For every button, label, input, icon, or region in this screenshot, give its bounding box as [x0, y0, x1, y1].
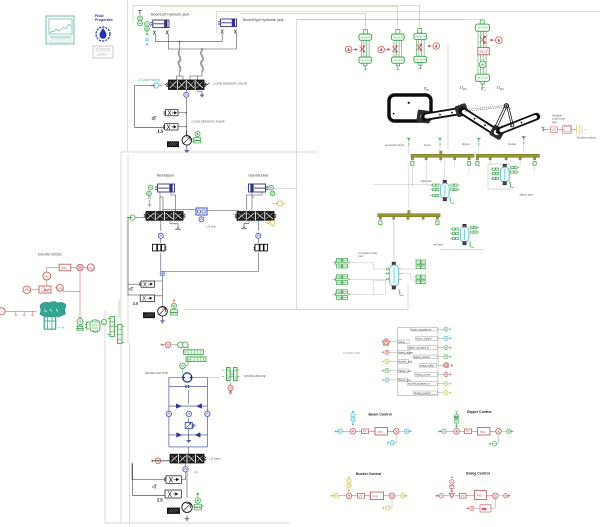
svg-text:ΠRsd: ΠRsd [459, 85, 468, 91]
swing pump control block [168, 508, 180, 513]
green wire to actuator A1 [240, 13, 365, 30]
swing motor loop [169, 378, 208, 447]
svg-text:PID: PID [477, 494, 483, 498]
SWING BRAKE [196, 368, 240, 381]
spring damper unit 1 [333, 258, 351, 268]
svg-text:boom: boom [424, 143, 432, 147]
svg-text:bucket_control: bucket_control [414, 392, 431, 395]
gain block [362, 429, 369, 434]
svg-text:Swing Control: Swing Control [466, 471, 490, 475]
olive bar 2 (bucket plane) [476, 154, 540, 157]
green wire to actuator A2 [160, 6, 398, 29]
valve outlet lines [186, 90, 202, 136]
svg-text:PID: PID [61, 266, 67, 270]
input port cyan [335, 429, 343, 433]
check valves row2 [177, 433, 201, 437]
speed sensor green n [101, 319, 106, 324]
region border mid column [216, 11, 600, 309]
bucket position yellow port [577, 125, 588, 135]
boom pump control block [168, 142, 179, 147]
bar3 pin up [408, 211, 410, 214]
line to pump 2 [155, 276, 163, 311]
green blocks right of body [416, 260, 425, 284]
svg-text:Πθb: Πθb [423, 86, 430, 92]
jack actuator A3 (dipper) [414, 29, 440, 69]
lines hoses to valve [177, 71, 203, 80]
LS valve signal input node [151, 83, 163, 88]
left jack green side ports [450, 227, 479, 240]
tag boxes inside [408, 327, 438, 395]
jack actuator A2 (boom right) [378, 30, 404, 70]
boomleft force sensor [138, 21, 143, 26]
setpoint from top cyan [351, 410, 355, 425]
pressure gauge below valve [184, 92, 189, 97]
bell crank links [463, 104, 515, 130]
central body block [386, 262, 403, 295]
gauges row [166, 411, 210, 416]
region border jacks [373, 164, 510, 250]
olive bar 3 (body plane) [378, 214, 441, 217]
svg-text:left jack: left jack [434, 242, 444, 246]
svg-text:LOAD SENSING VALVE: LOAD SENSING VALVE [214, 82, 249, 86]
black LS line swing [132, 461, 170, 496]
swing brake mini link [409, 353, 413, 364]
boom-dipper joint [454, 103, 469, 118]
svg-text:ΠRsd: ΠRsd [496, 85, 505, 91]
engine constant source [87, 264, 94, 271]
left side tags [398, 340, 413, 382]
left jack spring [469, 242, 474, 248]
dipper compensator valve A [139, 281, 154, 287]
svg-text:LS: LS [156, 499, 163, 504]
LOAD SENSING VALVE (boom main valve) [165, 80, 209, 90]
chart/plot icon top-left [46, 16, 74, 44]
load function block [563, 126, 572, 134]
swing speed sensor [180, 359, 190, 368]
svg-text:Properties: Properties [95, 18, 113, 22]
bucket sensors (right of cylinder) [269, 185, 275, 196]
svg-text:1 2 3 4 5: 1 2 3 4 5 [97, 53, 108, 57]
pump 2 green control [171, 303, 178, 315]
swing feedback chain below [466, 499, 495, 512]
excavator body (black rounded frame) [389, 95, 431, 121]
swing LS valve [170, 454, 206, 463]
swing clutch (double green circles) [171, 342, 188, 348]
closed valve X [185, 385, 189, 388]
pump 2 (dipper/bucket supply) [158, 307, 168, 317]
gearbox green [85, 320, 100, 332]
svg-text:swing_control: swing_control [415, 374, 431, 377]
dipper jack body [501, 165, 510, 185]
bucket valve yellow LS output [266, 220, 275, 225]
bar1 pins below [411, 157, 470, 160]
swing gear coupling bars [184, 345, 207, 362]
bucket compensator block [254, 244, 268, 251]
boom pos port [382, 378, 399, 382]
swing pump tank [185, 516, 190, 521]
black LS feedback line boom [135, 86, 165, 128]
bar2 green connector squares [476, 161, 536, 165]
bucket gauge [256, 233, 261, 238]
svg-text:dipper: dipper [462, 142, 470, 146]
bucket link [500, 117, 537, 131]
boomleft sensor 4 [145, 26, 150, 31]
svg-text:excavator body: excavator body [385, 143, 405, 147]
swing control loop [436, 476, 511, 512]
dipper compensator valve B [140, 295, 154, 301]
svg-text:PID: PID [373, 494, 379, 498]
summer red [350, 429, 356, 435]
right jack body [441, 181, 450, 201]
boom compensator valve 2 [163, 124, 178, 130]
svg-text:Boom Control: Boom Control [369, 412, 392, 416]
BoomLeft leak marks [153, 31, 168, 35]
svg-text:Dipper Control: Dipper Control [467, 410, 492, 414]
engine red wires [6, 268, 88, 320]
swing compensator 2 [165, 490, 181, 498]
spring damper unit 3 [333, 290, 351, 300]
svg-text:Bucket position: Bucket position [577, 136, 596, 140]
tank symbol right [200, 92, 204, 98]
bucket cylinder lines [247, 192, 263, 211]
bar3 pins below [379, 217, 438, 220]
swing torque input port red [160, 342, 171, 348]
shaft wires green [84, 300, 125, 335]
boom pump [182, 131, 192, 146]
engine speed sensor circle [43, 272, 51, 280]
svg-text:LOAD SENSING PUMP: LOAD SENSING PUMP [192, 119, 226, 123]
boom compensator valve 1 [164, 110, 187, 128]
wires body part [351, 217, 417, 294]
swing hydraulic motor [183, 373, 192, 382]
boom pump green control [192, 131, 201, 143]
feedback input below [386, 434, 396, 445]
torque sensor green [77, 319, 84, 331]
dipper jack green side ports [490, 167, 519, 180]
right jack green side ports [431, 184, 460, 197]
C spring symbol 2 [129, 288, 134, 292]
engine input circle left [23, 286, 31, 294]
dipper valve lower lines [161, 220, 181, 243]
cyan position output [145, 39, 149, 41]
BoomRight cylinder [218, 19, 237, 27]
engine circle mid [56, 284, 63, 291]
bar3 green connector squares [379, 221, 439, 225]
dipper-bucket joint [489, 124, 506, 140]
pi labels under actuators [423, 85, 505, 92]
green wire to swing actuator A4 [297, 20, 483, 25]
bucket valve lower lines [241, 220, 258, 243]
BoomLeft cylinder [150, 20, 169, 28]
svg-text:LS: LS [194, 470, 197, 474]
PID box [375, 428, 388, 436]
pump 2 control block [144, 313, 155, 318]
dipper control loop [438, 412, 514, 446]
engine input port at canvas edge [0, 308, 5, 315]
multiplier [394, 429, 400, 435]
engine block (teal) [40, 302, 66, 330]
svg-text:boom_pos: boom_pos [399, 379, 411, 382]
green arrow down [146, 32, 149, 36]
svg-text:dipper_pos: dipper_pos [399, 370, 412, 373]
swing angle port [382, 350, 399, 354]
boomleft sensor 3 [145, 22, 150, 27]
zero speed source top tick [138, 11, 141, 15]
dipper pos port [382, 369, 399, 373]
dipper compensator block [153, 244, 167, 251]
svg-text:part: part [359, 254, 364, 258]
green wire to actuator A3 [133, 6, 420, 30]
bucket cylinder [249, 184, 269, 192]
bucket pos port [382, 359, 399, 363]
dipper cylinder [155, 184, 175, 192]
dipper valve [144, 212, 185, 221]
fluid properties droplet icon [96, 27, 110, 41]
svg-text:LS valve: LS valve [209, 457, 221, 461]
left jack body [460, 225, 469, 245]
hose 1 (S curve) [178, 51, 180, 71]
junction summer [160, 272, 164, 276]
bar1 green connector squares [411, 161, 471, 165]
jack actuator A1 (boom left) [345, 30, 371, 70]
swing brake input red [228, 383, 233, 394]
dipper link [463, 111, 497, 133]
svg-text:n1,2: n1,2 [481, 87, 487, 92]
load gain block [550, 127, 557, 133]
svg-text:SYSTEM UNIT: SYSTEM UNIT [343, 351, 361, 355]
line to LS valve [187, 447, 189, 454]
svg-text:ENGINE MODEL: ENGINE MODEL [38, 253, 63, 257]
boom link [425, 111, 462, 117]
bucket control loop [331, 477, 408, 510]
olive bar 1 (boom plane) [411, 154, 474, 157]
BoomRight leak marks [221, 30, 237, 34]
svg-text:Bucket Control: Bucket Control [356, 472, 381, 476]
supply lines joining pump [161, 253, 258, 274]
bucket yellow input arrow [273, 201, 285, 206]
svg-text:NewDipper: NewDipper [157, 174, 176, 178]
dipper jack spring [509, 182, 514, 188]
mechanism ground pins [407, 136, 525, 146]
region border mechanism [128, 45, 448, 523]
svg-text:dipper_control: dipper_control [414, 356, 430, 359]
svg-text:BoomRight hydraulic jack: BoomRight hydraulic jack [243, 18, 284, 22]
swing pump [182, 498, 192, 516]
swing pump green control [192, 498, 204, 510]
LS shuttle block between circuits [163, 208, 239, 215]
right ports column [438, 327, 453, 395]
signals unit frame [398, 328, 439, 396]
swing gauge below valve [183, 467, 188, 472]
svg-text:PID: PID [480, 430, 486, 434]
black LS line dipper [128, 218, 140, 296]
svg-text:LS line: LS line [207, 225, 217, 229]
svg-text:OpenBucket: OpenBucket [248, 174, 268, 178]
svg-text:swing_angle: swing_angle [399, 351, 414, 354]
swing actuator A4 [475, 20, 502, 87]
svg-text:SWING BRAKE: SWING BRAKE [244, 374, 267, 378]
bucket valve [235, 212, 276, 221]
boom hydraulic lines to manifold [156, 34, 237, 52]
svg-text:LS: LS [132, 301, 139, 306]
right jack spring [449, 198, 454, 204]
svg-text:valve: valve [399, 341, 405, 344]
dipper gauge [158, 233, 163, 238]
svg-text:PID: PID [378, 430, 384, 434]
swing valve input red [151, 458, 170, 464]
C spring symbol swing [153, 485, 158, 489]
bar2 pins below [476, 157, 535, 160]
svg-text:swing_brake: swing_brake [420, 364, 435, 367]
spring damper unit 2 [333, 275, 351, 285]
dipper cylinder lines to valve [160, 192, 176, 212]
svg-text:boom_control: boom_control [416, 338, 432, 341]
svg-text:boom_actuated or: boom_actuated or [411, 328, 431, 331]
hose 2 (S curve) [201, 51, 203, 71]
shaft junction bar 2 [118, 325, 125, 344]
pump 2 tank [160, 316, 165, 323]
boom control loop [335, 410, 412, 445]
svg-text:dipper_actuated or: dipper_actuated or [408, 347, 429, 350]
engine governor block [39, 286, 51, 293]
dipper sensors [147, 185, 153, 206]
shaft junction bar 1 [108, 317, 118, 337]
svg-text:right jack: right jack [421, 179, 433, 183]
svg-text:LS: LS [157, 130, 164, 135]
C spring symbol [152, 117, 157, 121]
svg-text:LS valve signal: LS valve signal [138, 78, 160, 82]
shuttle gauge [199, 217, 204, 222]
engine PID box [59, 264, 71, 271]
swing compensator 1 [164, 475, 186, 484]
tank below relief [186, 435, 191, 443]
boom base joint [416, 109, 431, 123]
rotary port red pentagon [382, 339, 398, 346]
svg-text:bucket: bucket [508, 142, 516, 146]
svg-text:PID: PID [482, 507, 487, 511]
svg-text:BoomLeft hydraulic jack: BoomLeft hydraulic jack [151, 13, 189, 17]
bar1 pin up [440, 151, 442, 154]
boomleft displacement sensor [138, 16, 143, 21]
svg-text:bucket_actuated or: bucket_actuated or [408, 383, 429, 386]
svg-text:SWING MOTOR: SWING MOTOR [145, 371, 169, 375]
region border top boom area [105, 0, 317, 523]
load input port [542, 128, 551, 132]
boom pump tank [185, 145, 190, 152]
relief valve swing [185, 418, 196, 435]
swing valve to pump line [186, 463, 188, 498]
svg-text:(kg): (kg) [552, 120, 557, 124]
title block small [93, 46, 113, 58]
svg-text:dipper jack: dipper jack [520, 192, 534, 196]
dipper valve green input [127, 215, 144, 220]
engine multiplier [77, 264, 83, 270]
check valve left row1 [176, 404, 201, 408]
output port cyan [399, 429, 411, 433]
connector verticals between pins/bars [380, 144, 534, 258]
